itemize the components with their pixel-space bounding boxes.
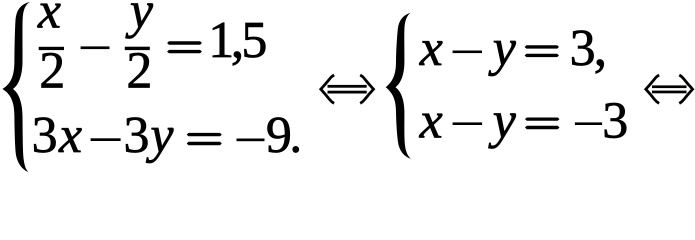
svg-text:3: 3 xyxy=(124,107,150,164)
svg-text:x: x xyxy=(419,92,443,149)
svg-text:x: x xyxy=(419,20,443,77)
right system brace xyxy=(386,13,411,159)
svg-text:3: 3 xyxy=(32,107,58,164)
svg-text:2: 2 xyxy=(126,43,152,100)
math formula: two systems of equations linked by double arrows xyxy=(0,0,695,174)
svg-text:3: 3 xyxy=(602,92,628,149)
equals row1 xyxy=(167,41,202,44)
svg-text:3: 3 xyxy=(570,20,596,77)
left double arrow xyxy=(321,75,374,103)
svg-text:y: y xyxy=(488,20,517,77)
svg-text:.: . xyxy=(289,107,302,164)
svg-text:y: y xyxy=(145,107,174,164)
svg-text:x: x xyxy=(58,107,82,164)
right double arrow xyxy=(646,75,693,103)
svg-text:2: 2 xyxy=(39,43,65,100)
svg-text:y: y xyxy=(125,0,154,40)
svg-text:y: y xyxy=(488,92,517,149)
svg-text:x: x xyxy=(37,0,61,40)
fraction bar 1 xyxy=(39,47,64,50)
fraction bar 2 xyxy=(125,47,150,50)
minus row1 xyxy=(81,46,110,49)
svg-text:5: 5 xyxy=(241,12,267,69)
svg-text:,: , xyxy=(594,17,608,77)
left system brace xyxy=(2,2,30,172)
svg-text:9: 9 xyxy=(266,107,292,164)
